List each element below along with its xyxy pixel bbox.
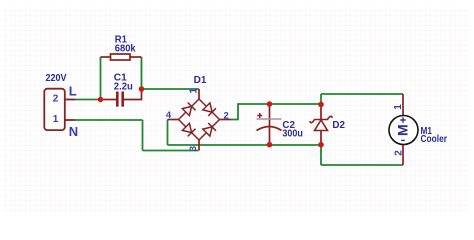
svg-text:1: 1 [53, 114, 59, 125]
wire DC- to motor pin 2 [321, 164, 403, 166]
junction node B (C1 / R1 / bridge feed) [139, 86, 145, 92]
connector pin 2 stub [65, 99, 75, 101]
wire N horizontal from connector pin 1 [75, 119, 143, 121]
bridge D1 diode top-left (anode left vertex, cathode top vertex) [179, 99, 200, 120]
wire DC- bottom rail [168, 144, 322, 146]
svg-text:2.2u: 2.2u [114, 81, 133, 93]
motor minus mark [401, 139, 405, 141]
wire DC- drop from bridge pin 4 [167, 120, 169, 146]
capacitor C1 right plate [121, 92, 124, 107]
bridge D1 bottom pin stub [198, 140, 200, 151]
zener diode D2 bottom lead [320, 131, 322, 146]
resistor R1 left lead [101, 56, 111, 58]
svg-text:N: N [69, 124, 78, 139]
svg-text:300u: 300u [282, 128, 302, 140]
bridge D1 right pin stub [220, 119, 231, 121]
resistor R1 body [111, 54, 131, 60]
bridge D1 top pin stub [198, 89, 200, 99]
wire DC+ to motor pin 1 [321, 93, 403, 95]
wire L from connector pin 2 to junction A [75, 99, 101, 101]
motor plus mark [400, 117, 405, 122]
wire DC- jog down after D2 [320, 145, 322, 165]
svg-text:M: M [395, 124, 411, 136]
motor M1 circle body [389, 116, 418, 145]
motor M1 pin 1 lead [402, 94, 404, 116]
svg-text:D2: D2 [332, 119, 345, 131]
svg-text:1: 1 [393, 104, 404, 110]
junction node A (L / C1 / R1) [98, 97, 104, 103]
svg-text:2: 2 [224, 110, 229, 121]
wire DC+ jog up after D2 [320, 94, 322, 104]
junction node DC+ at C2 [267, 101, 273, 107]
resistor R1 right lead [130, 56, 142, 58]
capacitor C1 left plate [116, 92, 119, 107]
zener diode D2 top lead [320, 104, 322, 120]
svg-text:L: L [69, 83, 77, 98]
wire R1 left riser [100, 57, 102, 100]
svg-text:3: 3 [188, 146, 199, 151]
svg-text:Cooler: Cooler [421, 133, 448, 145]
junction node DC- at D2 [318, 142, 324, 148]
capacitor C2 curved bottom plate [257, 127, 282, 131]
capacitor C2 straight top plate [257, 118, 282, 120]
wire DC+ top rail C2 to D2 [270, 103, 322, 105]
bridge D1 diode bottom-right (anode bottom vertex, cathode right vertex) [199, 120, 220, 141]
wire DC+ from bridge pin 2 up to top rail [231, 104, 270, 120]
motor M1 pin 2 lead [402, 145, 404, 166]
junction node DC+ at D2 [318, 102, 324, 108]
svg-text:1: 1 [188, 88, 199, 94]
capacitor C1 left lead [101, 99, 117, 101]
bridge D1 diode bottom-left (anode left vertex, cathode bottom vertex) [179, 120, 200, 141]
wire top feed from junction B to bridge pin 1 [142, 88, 200, 90]
zener diode D2 triangle (apex up) [315, 120, 328, 131]
svg-text:4: 4 [166, 110, 172, 121]
svg-text:2: 2 [394, 150, 405, 156]
junction node DC- at C2 [267, 142, 273, 148]
bridge D1 diode top-right (anode top vertex, cathode right vertex) [199, 99, 220, 120]
wire N bottom run to bridge pin 3 [143, 150, 199, 152]
wire N vertical drop [142, 120, 144, 151]
connector pin 1 stub [65, 119, 75, 121]
capacitor C2 vertical lead [269, 104, 271, 145]
bridge D1 left pin stub [168, 119, 179, 121]
svg-text:680k: 680k [115, 43, 136, 55]
capacitor C2 plus sign [257, 113, 262, 118]
wire R1 right riser [141, 57, 143, 89]
connector P1 220V body [44, 89, 65, 130]
svg-text:2: 2 [53, 94, 59, 105]
svg-text:220V: 220V [46, 72, 67, 84]
capacitor C1 right lead [124, 89, 142, 100]
zener diode D2 cathode bar with hooks [310, 116, 332, 122]
svg-text:D1: D1 [194, 74, 207, 86]
